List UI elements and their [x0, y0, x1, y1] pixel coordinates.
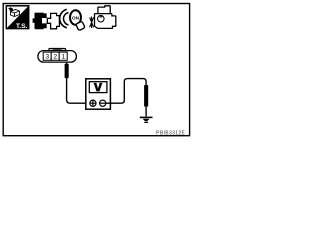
svg-text:PBIB3312E: PBIB3312E — [156, 130, 185, 136]
svg-text:3: 3 — [45, 54, 49, 61]
svg-text:T.S.: T.S. — [16, 23, 28, 30]
svg-text:2: 2 — [53, 54, 57, 61]
svg-text:1: 1 — [61, 54, 65, 61]
svg-text:ON: ON — [72, 15, 80, 20]
